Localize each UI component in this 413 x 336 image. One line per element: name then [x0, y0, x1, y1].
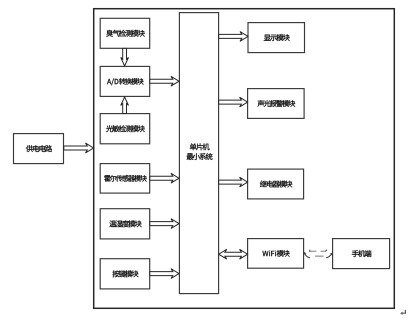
block phone 手机端	[333, 239, 390, 269]
wireless link WiFi模块 to 手机端	[304, 250, 333, 258]
wire arrow 温湿度模块 to MCU	[150, 219, 179, 229]
wire arrow 光敏检测模块 to A/D转换模块	[121, 97, 129, 114]
block keys 按键模块	[100, 259, 150, 289]
block display 显示模块	[248, 23, 305, 53]
block wifi WiFi模块	[248, 239, 304, 269]
wire arrow A/D转换模块 to MCU	[150, 76, 179, 86]
block light detect 光敏检测模块	[100, 114, 150, 144]
wire arrow MCU to 继电器模块	[219, 177, 248, 187]
block MCU 单片机最小系统	[179, 13, 218, 294]
wire arrow 按键模块 to MCU	[150, 269, 179, 279]
wire arrow 臭气检测模块 to A/D转换模块	[121, 48, 129, 66]
wire double arrow MCU to WiFi模块	[219, 249, 248, 259]
wire arrow MCU to 显示模块	[219, 32, 248, 42]
wire arrow MCU to 声光报警模块	[219, 97, 248, 107]
block A/D convert A/D转换模块	[100, 66, 150, 96]
return mark	[400, 310, 405, 315]
block hall sensor 霍尔传感器模块	[100, 164, 150, 194]
block relay 继电器模块	[248, 169, 304, 199]
block temp/humidity 温湿度模块	[100, 209, 150, 239]
system boundary frame	[94, 9, 395, 309]
block power supply 供电电路	[14, 134, 64, 164]
block odor detect 臭气检测模块	[100, 18, 150, 48]
wire arrow 供电电路 to frame	[64, 143, 94, 153]
block alarm 声光报警模块	[248, 89, 305, 119]
wire arrow 霍尔传感器模块 to MCU	[150, 173, 179, 183]
